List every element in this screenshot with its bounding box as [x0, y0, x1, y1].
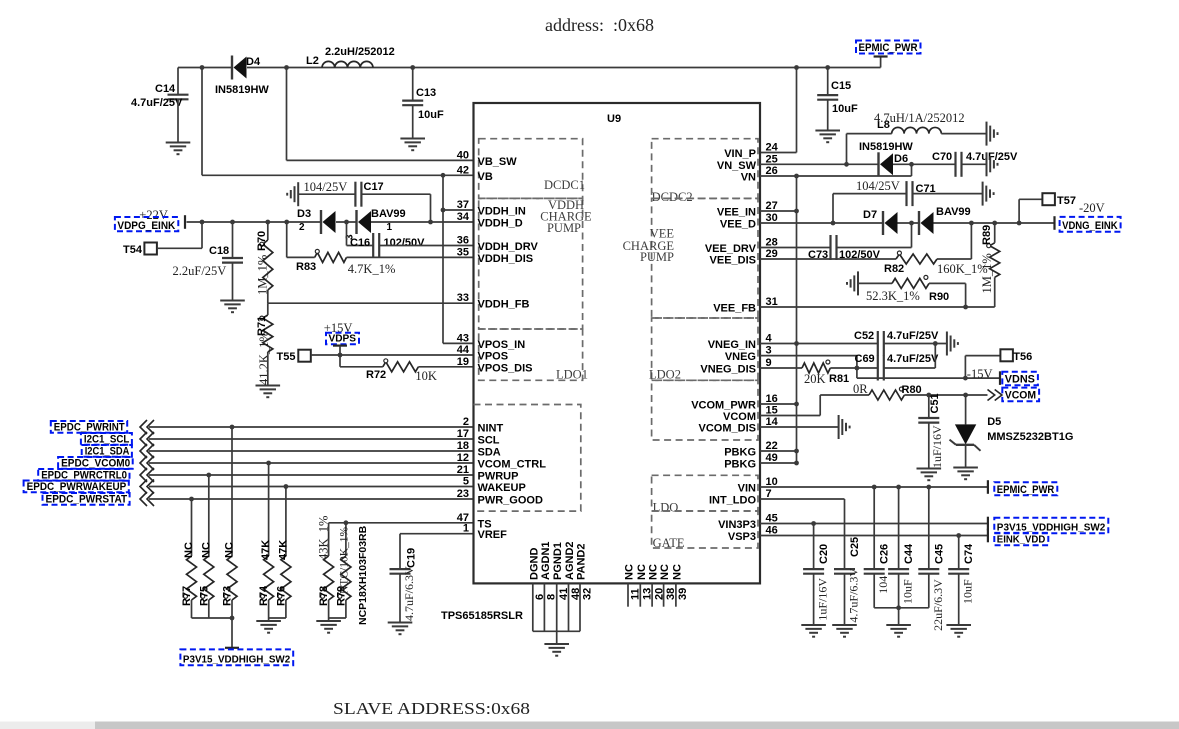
svg-text:44: 44: [457, 344, 470, 356]
wire C74 top lead: [958, 536, 960, 570]
wire VN extension: [797, 175, 912, 177]
pin 11 NC: [627, 583, 629, 606]
diode D6: [859, 141, 913, 176]
net label I2C1_SDA: [82, 445, 132, 457]
wire EPDC_VCOM0 row: [149, 462, 474, 464]
chevron EPDC_PWRINT: [140, 420, 154, 434]
wire C14 top lead: [177, 68, 179, 95]
svg-text:VN_SW: VN_SW: [717, 160, 757, 172]
net label P3V15_VDDHIGH_SW2: [180, 649, 293, 665]
svg-text:VNEG: VNEG: [725, 351, 756, 363]
svg-text:1: 1: [387, 222, 393, 233]
svg-text:24: 24: [766, 142, 779, 154]
svg-text:2.2uF/25V: 2.2uF/25V: [173, 264, 227, 278]
svg-text:I2C1_SCL: I2C1_SCL: [84, 433, 130, 445]
wire C19 bottom lead: [399, 574, 401, 622]
wire R76 bottom lead: [269, 600, 286, 618]
capacitor C69 4.7uF/25V: [855, 353, 940, 381]
ground IC ground: [544, 644, 569, 656]
wire VB riser: [201, 68, 203, 176]
wire VCOM row 15: [760, 395, 820, 416]
svg-text:17: 17: [457, 428, 469, 440]
wire bottom gnd stem: [556, 631, 558, 643]
junction VDPS node: [338, 353, 343, 358]
svg-text:VDNG_EINK: VDNG_EINK: [1062, 220, 1118, 232]
capacitor C44: [888, 543, 915, 604]
svg-text:C69: C69: [855, 353, 875, 365]
resistor R70 1M_1%: [256, 231, 273, 295]
junction row30/R82 riser: [969, 221, 974, 226]
ground under R71: [256, 386, 281, 398]
svg-text:1: 1: [463, 523, 469, 535]
diode BAV99 D3b: [357, 208, 406, 234]
svg-text:AGND2: AGND2: [564, 541, 576, 580]
svg-text:D4: D4: [246, 56, 261, 68]
junction VN bus / row 22: [794, 449, 799, 454]
svg-text:34: 34: [457, 211, 470, 223]
junction row34/C17 riser: [428, 220, 433, 225]
net tick EINK_VDD: [987, 529, 989, 543]
svg-text:T55: T55: [277, 351, 296, 363]
svg-text:2: 2: [299, 222, 305, 233]
ground under C18: [220, 301, 245, 313]
pin 20 NC: [651, 583, 653, 606]
wire R75 column: [208, 475, 210, 556]
junction C52/C69 join: [933, 341, 938, 346]
wire VNEG_DIS row 9: [760, 367, 802, 369]
svg-text:104: 104: [876, 576, 890, 594]
junction rail/C15: [825, 65, 830, 70]
dashed block LDO2: [652, 318, 758, 380]
svg-text:4.7uF/25V: 4.7uF/25V: [887, 330, 939, 342]
junction row10/C45: [926, 485, 931, 490]
svg-text:19: 19: [457, 356, 469, 368]
wire VDDH_DRV row 36: [379, 245, 473, 247]
svg-text:C52: C52: [854, 330, 874, 342]
wire I2C1_SCL row: [149, 438, 474, 440]
wire VREF row 1: [400, 533, 474, 535]
wire C17 line right: [361, 194, 430, 222]
wire D6 to C70: [893, 163, 956, 165]
wire C51 bottom lead: [928, 423, 930, 468]
wire C15 bottom lead: [827, 100, 829, 130]
pin 41 PGND1: [556, 583, 558, 631]
svg-text:EPDC_PWRWAKEUP: EPDC_PWRWAKEUP: [27, 481, 127, 493]
svg-text:PUMP: PUMP: [640, 250, 674, 264]
svg-text:VDDH_DIS: VDDH_DIS: [478, 253, 534, 265]
svg-text:VNEG_IN: VNEG_IN: [708, 339, 756, 351]
net label EPDC_PWRWAKEUP: [24, 481, 129, 493]
capacitor C19: [390, 548, 418, 621]
svg-text:LDO2: LDO2: [649, 368, 681, 382]
wire C13 bottom lead: [412, 105, 414, 138]
svg-text:37: 37: [457, 199, 469, 211]
svg-text:VSP3: VSP3: [728, 531, 756, 543]
net tick P3V15: [225, 647, 239, 649]
capacitor C45: [918, 544, 945, 631]
wire T57 riser: [1019, 199, 1042, 223]
wire VN_SW row 25: [760, 163, 847, 165]
svg-text:47K: 47K: [277, 540, 289, 560]
pin 39 NC: [675, 583, 677, 606]
svg-text:C19: C19: [406, 548, 418, 568]
svg-text:PUMP: PUMP: [547, 221, 581, 235]
svg-text:4.7uF/25V: 4.7uF/25V: [131, 97, 183, 109]
resistor R80 0R: [853, 382, 922, 400]
svg-text:21: 21: [457, 464, 469, 476]
svg-text:VB_SW: VB_SW: [478, 156, 518, 168]
wire INT_LDO row 7: [760, 498, 845, 500]
wire VIN top rail: [178, 67, 232, 69]
junction C44 join: [896, 605, 901, 610]
ground under C14: [166, 143, 191, 155]
wire EPDC_PWRCTRL0 row: [149, 474, 474, 476]
svg-text:VDNS: VDNS: [1005, 374, 1035, 386]
capacitor C14: [131, 83, 189, 109]
junction R80/C51: [926, 393, 931, 398]
wire R82 out: [937, 223, 971, 259]
pin 8 AGDN1: [543, 583, 545, 631]
svg-text:SDA: SDA: [478, 447, 501, 459]
svg-text:102/50V: 102/50V: [384, 237, 426, 249]
svg-text:NC: NC: [200, 542, 212, 558]
svg-text:PBKG: PBKG: [724, 459, 756, 471]
wire R90 out: [929, 283, 966, 307]
svg-text:18: 18: [457, 440, 469, 452]
ground under C15: [815, 131, 840, 143]
svg-text:VPOS_IN: VPOS_IN: [478, 339, 526, 351]
svg-text:NINT: NINT: [478, 423, 504, 435]
svg-text:TPS65185RSLR: TPS65185RSLR: [441, 610, 523, 622]
wire R81 out: [830, 367, 878, 369]
junction rail/VB riser: [200, 65, 205, 70]
svg-text:40: 40: [457, 149, 469, 161]
wire D5 top lead: [965, 395, 967, 424]
wire VPOS_DIS row 19: [418, 366, 473, 368]
net label EPMIC_PWR right: [994, 482, 1057, 496]
junction VN_SW/L8: [844, 162, 849, 167]
junction VN bus / row 27: [794, 209, 799, 214]
junction diode mid / C16 riser: [344, 220, 349, 225]
wire R71 top lead: [267, 303, 269, 315]
wire VB_SW riser: [286, 68, 288, 161]
wire EPDC_PWRINT row: [149, 426, 474, 428]
svg-text:10uF: 10uF: [901, 579, 915, 604]
wire D3 to BAV99: [336, 221, 357, 223]
junction VN bus / row 49: [794, 461, 799, 466]
svg-text:VCOM_CTRL: VCOM_CTRL: [478, 459, 547, 471]
svg-text:PWR_GOOD: PWR_GOOD: [478, 495, 543, 507]
wire C14 bottom lead: [177, 99, 179, 142]
svg-text:12: 12: [457, 452, 469, 464]
wire PBKG row 22: [760, 450, 797, 452]
chevron EPDC_PWRSTAT: [140, 492, 154, 506]
junction row30/C71 riser: [831, 221, 836, 226]
wire rail to EPMIC_PWR: [880, 57, 882, 68]
junction row10/C44: [896, 485, 901, 490]
net label VCOM: [1002, 388, 1039, 402]
diode D4: [215, 56, 269, 97]
wire C20 bottom lead: [813, 574, 815, 625]
svg-text:C18: C18: [209, 245, 229, 257]
net tick P3V15_VDDHIGH_SW2: [987, 517, 989, 531]
capacitor C70 4.7uF/25V: [932, 151, 1018, 177]
ground VCOM_DIS ground: [839, 415, 850, 439]
capacitor C20: [803, 544, 830, 621]
junction R77 tap: [189, 497, 194, 502]
inductor L8: [874, 111, 965, 134]
junction rail/VB_SW riser: [284, 65, 289, 70]
svg-text:VEE_DRV: VEE_DRV: [705, 243, 757, 255]
svg-text:43: 43: [457, 332, 469, 344]
ground under C20: [801, 625, 826, 637]
wire C71 riser: [833, 194, 907, 223]
svg-text:C14: C14: [155, 83, 176, 95]
junction tap C20: [811, 521, 816, 526]
svg-text:4.7uF/6.3V: 4.7uF/6.3V: [402, 566, 416, 621]
svg-text:35: 35: [457, 246, 469, 258]
wire EPDC_PWRWAKEUP row: [149, 486, 474, 488]
pin 13 NC: [639, 583, 641, 606]
chevron EPDC_VCOM0: [140, 456, 154, 470]
svg-text:VCOM: VCOM: [723, 411, 756, 423]
diode BAV99 D7b: [919, 206, 971, 235]
net tick VDPG_EINK: [184, 215, 186, 229]
svg-text:IN5819HW: IN5819HW: [215, 84, 269, 96]
chevron EPDC_PWRWAKEUP: [140, 480, 154, 494]
wire C45 bottom lead: [899, 574, 929, 608]
svg-text:NC: NC: [624, 564, 636, 580]
resistor R79 NTC: [336, 525, 370, 625]
svg-text:-15V: -15V: [967, 367, 993, 381]
wire VSP3 row 46: [760, 535, 988, 537]
svg-text:R83: R83: [296, 261, 316, 273]
chevron EPDC_PWRCTRL0: [140, 468, 154, 482]
svg-text:C16: C16: [350, 237, 370, 249]
dashed block LDO: [652, 475, 758, 511]
capacitor C74: [948, 543, 975, 604]
inductor L2: [306, 46, 395, 68]
wire C13 top lead: [412, 68, 414, 101]
wire VB_SW row 40: [287, 159, 474, 161]
svg-text:SLAVE ADDRESS:0x68: SLAVE ADDRESS:0x68: [333, 699, 530, 718]
svg-text:10K: 10K: [415, 369, 437, 383]
wire VEE_IN row 27: [760, 210, 797, 212]
wire C52 to ground: [884, 343, 947, 345]
svg-text:EPMIC_PWR: EPMIC_PWR: [997, 484, 1055, 496]
ground under R74: [256, 621, 281, 633]
scrollbar track: [0, 722, 1179, 729]
resistor R73 NC: [222, 542, 238, 606]
svg-text:PBKG: PBKG: [724, 447, 756, 459]
svg-text:I2C1_SDA: I2C1_SDA: [85, 445, 130, 457]
net tick EPMIC_PWR: [874, 55, 888, 57]
ground C71 ground: [983, 182, 994, 206]
resistor R74 47K: [258, 540, 274, 606]
svg-text:EPDC_PWRSTAT: EPDC_PWRSTAT: [46, 493, 128, 505]
svg-text:VNEG_DIS: VNEG_DIS: [700, 364, 756, 376]
svg-text:104/25V: 104/25V: [304, 180, 348, 194]
svg-text:NC: NC: [636, 564, 648, 580]
resistor R76 47K: [275, 540, 291, 606]
wire T54 lead: [157, 222, 202, 248]
svg-text:R70: R70: [256, 231, 268, 251]
wire VIN top rail right of D4: [247, 67, 881, 69]
junction R80/D5: [963, 393, 968, 398]
wire L8 to ground: [941, 133, 986, 135]
svg-text:R89: R89: [981, 225, 993, 245]
svg-text:C45: C45: [933, 544, 945, 564]
svg-text:NCP18XH103F03RB: NCP18XH103F03RB: [357, 525, 369, 625]
svg-text:D5: D5: [987, 416, 1001, 428]
svg-text:1uF/16V: 1uF/16V: [816, 578, 830, 621]
wire VDDH_IN row 37: [443, 209, 474, 211]
wire R73 bottom lead: [231, 600, 233, 648]
svg-text:BAV99: BAV99: [371, 208, 406, 220]
wire VPOS_IN row 43: [443, 342, 474, 344]
junction R79 tap: [344, 520, 349, 525]
wire C26 top lead: [873, 487, 875, 569]
wire R76 column: [285, 487, 287, 557]
wire C51 top lead: [928, 395, 930, 418]
wire VEE_DIS row 29: [760, 258, 896, 260]
wire R89 bottom lead: [994, 277, 996, 307]
svg-text:VN: VN: [741, 172, 756, 184]
svg-text:R90: R90: [929, 291, 949, 303]
wire VEE_FB row 31: [760, 306, 995, 308]
wire VN bus: [796, 176, 798, 463]
svg-text:10uF: 10uF: [832, 103, 858, 115]
net label EPMIC_PWR top: [856, 41, 921, 55]
wire C20 top lead: [813, 524, 815, 570]
junction row10/C26: [872, 485, 877, 490]
dashed block LDO1: [479, 329, 583, 380]
svg-text:VDDH_FB: VDDH_FB: [478, 299, 530, 311]
svg-text:PGND1: PGND1: [552, 542, 564, 580]
wire VN riser: [911, 164, 913, 176]
svg-text:C17: C17: [364, 181, 384, 193]
svg-text:32: 32: [581, 588, 593, 600]
svg-text:BAV99: BAV99: [936, 206, 971, 218]
svg-text:AGDN1: AGDN1: [540, 541, 552, 580]
dashed block digital: [474, 405, 581, 512]
terminal T57: [1042, 193, 1076, 207]
wire VN_SW to D6: [847, 163, 879, 165]
svg-text:NTC/10K_1%: NTC/10K_1%: [339, 527, 351, 595]
svg-text:1M_1%: 1M_1%: [256, 255, 270, 295]
IC U9 body: [474, 103, 761, 583]
diode D7: [863, 209, 898, 235]
svg-text:4.7uF/25V: 4.7uF/25V: [966, 151, 1018, 163]
terminal T55: [277, 350, 311, 363]
capacitor C51: [918, 393, 944, 468]
wire R70 top lead: [267, 222, 269, 240]
wire VIN3P3 row 45: [760, 523, 988, 525]
junction VN bus top: [794, 174, 799, 179]
wire C15 top lead: [827, 68, 829, 96]
svg-text:C15: C15: [831, 80, 851, 92]
svg-text:43K_1%: 43K_1%: [317, 516, 331, 560]
junction rail/C13: [410, 65, 415, 70]
junction VB bus / row 37: [441, 208, 446, 213]
svg-text:VIN3P3: VIN3P3: [718, 519, 756, 531]
svg-text:2: 2: [463, 416, 469, 428]
svg-text:104/25V: 104/25V: [856, 179, 900, 193]
wire VIN_P riser: [760, 68, 797, 153]
pin 32 PAND2: [579, 583, 581, 631]
svg-text:5: 5: [463, 476, 469, 488]
wire D5 bottom lead: [965, 445, 967, 467]
resistor R83 4.7K_1%: [296, 249, 395, 276]
dashed block VCOM: [652, 380, 758, 440]
svg-text:VCOM_PWR: VCOM_PWR: [691, 400, 756, 412]
resistor R90 52.3K: [866, 275, 949, 303]
wire R78 column: [328, 523, 330, 556]
svg-text:C20: C20: [818, 544, 830, 564]
wire R71 bottom lead: [267, 352, 269, 385]
svg-text:C70: C70: [932, 151, 952, 163]
junction VB bus / row 42: [441, 173, 446, 178]
wire EPDC_PWRSTAT row: [149, 498, 474, 500]
svg-text:NC: NC: [648, 564, 660, 580]
svg-text:DCDC2: DCDC2: [652, 190, 693, 204]
ground C17 ground: [287, 182, 298, 206]
svg-text:L2: L2: [306, 55, 319, 67]
wire bottom gnd join: [533, 630, 580, 632]
wire C44 bottom lead: [898, 574, 900, 625]
net tick VDNS: [999, 371, 1001, 385]
svg-text:22uF/6.3V: 22uF/6.3V: [931, 579, 945, 631]
wire R79 bottom lead: [329, 600, 346, 618]
svg-text:DGND: DGND: [528, 548, 540, 580]
ground R90 ground: [847, 271, 858, 295]
svg-text:VDPS: VDPS: [329, 333, 357, 345]
svg-text:C74: C74: [963, 543, 975, 564]
svg-text:D6: D6: [894, 153, 908, 165]
svg-text:D3: D3: [297, 208, 311, 220]
svg-text:P3V15_VDDHIGH_SW2: P3V15_VDDHIGH_SW2: [997, 522, 1106, 534]
wire VB bus: [442, 175, 444, 343]
wire VB row 42: [202, 174, 474, 176]
svg-text:VCOM_DIS: VCOM_DIS: [699, 423, 756, 435]
scrollbar thumb: [95, 722, 1179, 729]
svg-text:EPDC_VCOM0: EPDC_VCOM0: [61, 457, 130, 469]
svg-text:VEE_FB: VEE_FB: [713, 303, 756, 315]
capacitor C15: [817, 80, 858, 115]
svg-text:PAND2: PAND2: [576, 544, 588, 580]
resistor R71 41.2K_1%: [256, 315, 273, 385]
net label EPDC_PWRSTAT: [43, 493, 130, 505]
svg-text:R72: R72: [366, 369, 386, 381]
junction row30/R89: [992, 221, 997, 226]
wire R79 column: [345, 523, 347, 556]
net label EPDC_PWRINT: [51, 421, 127, 433]
svg-text:EPDC_PWRINT: EPDC_PWRINT: [54, 421, 125, 433]
wire R89 top lead: [994, 223, 996, 243]
terminal T54: [123, 243, 157, 257]
net tick EPMIC_PWR: [987, 480, 989, 494]
dashed block GATE: [652, 511, 758, 548]
svg-text:36: 36: [457, 235, 469, 247]
svg-text:NC: NC: [183, 542, 195, 558]
wire VNEG_IN row 4: [760, 343, 878, 345]
junction -15V/T56: [963, 376, 968, 381]
junction VNEG node: [855, 366, 860, 371]
wire R77 column: [191, 499, 193, 556]
wire C74 bottom lead: [958, 574, 960, 625]
wire VDPS tick lead: [339, 346, 341, 355]
junction row30/T57 riser: [1017, 221, 1022, 226]
